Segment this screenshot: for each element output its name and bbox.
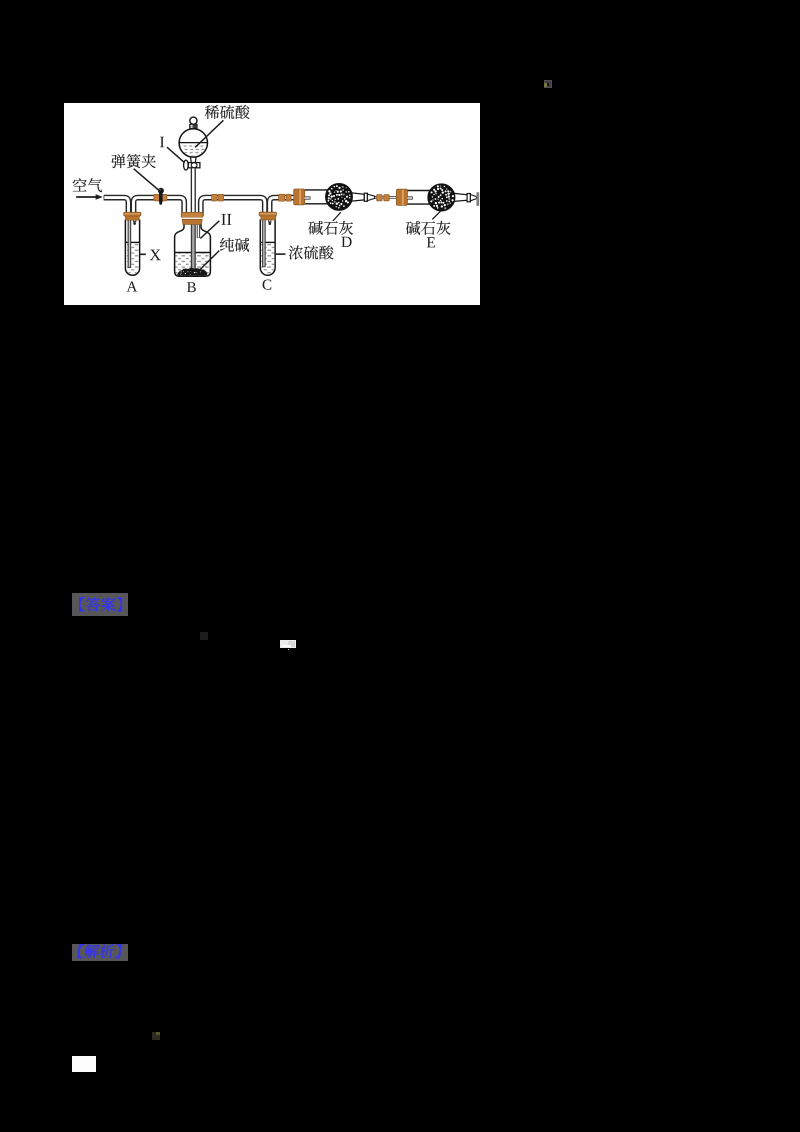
stopper of bottle B [181, 212, 203, 224]
drying tube D ball with soda lime [326, 184, 353, 211]
outlet stub in C [269, 215, 272, 225]
wire: tube from bottle B to test tube C [201, 198, 265, 216]
stopper of test tube C [259, 212, 276, 220]
stopper of drying tube E [396, 189, 407, 205]
pointer line to E ball [432, 210, 441, 219]
test tube C liquid 浓硫酸 [261, 242, 275, 274]
drying tube D body [305, 190, 365, 204]
label: air inlet 空气 [73, 178, 102, 192]
bottle B body [175, 224, 211, 276]
pointer line from II to outlet stub [200, 221, 219, 239]
label E [427, 237, 435, 247]
bottle B liquid [175, 253, 210, 276]
test tube C body [260, 220, 275, 276]
drying tube E body [407, 191, 467, 205]
stopper of drying tube D [294, 189, 305, 205]
drying tube D nozzle [364, 193, 374, 201]
label 稀硫酸 [205, 105, 250, 119]
label B [187, 282, 196, 292]
label II [221, 214, 225, 225]
pointer line from 稀硫酸 into funnel ball [195, 120, 223, 147]
label D [341, 237, 351, 247]
funnel taper to stopcock [190, 157, 196, 163]
pointer line from I to stopcock [167, 147, 185, 163]
label X with tick [140, 250, 161, 261]
small white formula fragment [280, 640, 296, 648]
small olive fragment [152, 1032, 160, 1040]
tube stub through E stopper [407, 196, 413, 199]
orange connector between B and C [212, 194, 224, 201]
test tube A body [125, 220, 139, 276]
wire: main gas tube inlet to test tube A [104, 198, 129, 216]
label 弹簧夹 [111, 154, 155, 168]
inlet arrow [76, 194, 103, 200]
label 纯碱 [220, 238, 249, 252]
gray cropped tube end at image edge [476, 192, 479, 206]
pointer line from 纯碱 to pile [199, 251, 219, 271]
answer label 【答案】 [72, 593, 128, 616]
separating funnel I : knob [190, 117, 198, 129]
wire: tube from test tube C to drying tube D [270, 198, 294, 216]
pointer line from 弹簧夹 to clamp [134, 169, 160, 191]
wire: thin tube from drying tube D to drying tube E [374, 196, 397, 199]
stopcock I [184, 160, 200, 170]
tube stub through D stopper [305, 196, 311, 199]
pointer line to D ball [333, 212, 341, 221]
outlet stub in A [133, 215, 136, 225]
separating funnel ball with dilute sulfuric acid [178, 129, 208, 157]
label 碱石灰 (E) [406, 221, 451, 235]
spring clamp on tube [154, 188, 167, 205]
funnel stem inside bottle B [191, 222, 196, 271]
soda ash pile 纯碱 [177, 268, 207, 276]
apparatus diagram panel [64, 103, 480, 305]
white formula fragment bottom left [72, 1056, 96, 1072]
drying tube E ball with soda lime [428, 184, 455, 211]
outlet stub tube in bottle B [197, 215, 200, 238]
label I [160, 137, 164, 147]
analysis label 【解析】 [72, 944, 128, 961]
tiny dark formula fragment [200, 632, 208, 640]
label 浓硫酸 with tick [275, 245, 334, 259]
label A [127, 282, 138, 292]
label 碱石灰 (D) [309, 221, 354, 235]
orange connector between D and E [377, 195, 390, 201]
test tube A liquid X [126, 242, 139, 274]
white dot under fragment [288, 649, 290, 651]
inner delivery tube in A [128, 215, 132, 268]
funnel stem above stopper B [191, 168, 196, 215]
stopper of test tube A [124, 212, 141, 220]
drying tube E nozzle [467, 194, 476, 202]
label C [263, 279, 272, 289]
wire: tube from test tube A to bottle B [134, 198, 185, 216]
small gray icon fragment top right [544, 80, 552, 88]
orange connector between C and D [279, 194, 291, 201]
inner delivery tube in C [262, 215, 266, 267]
